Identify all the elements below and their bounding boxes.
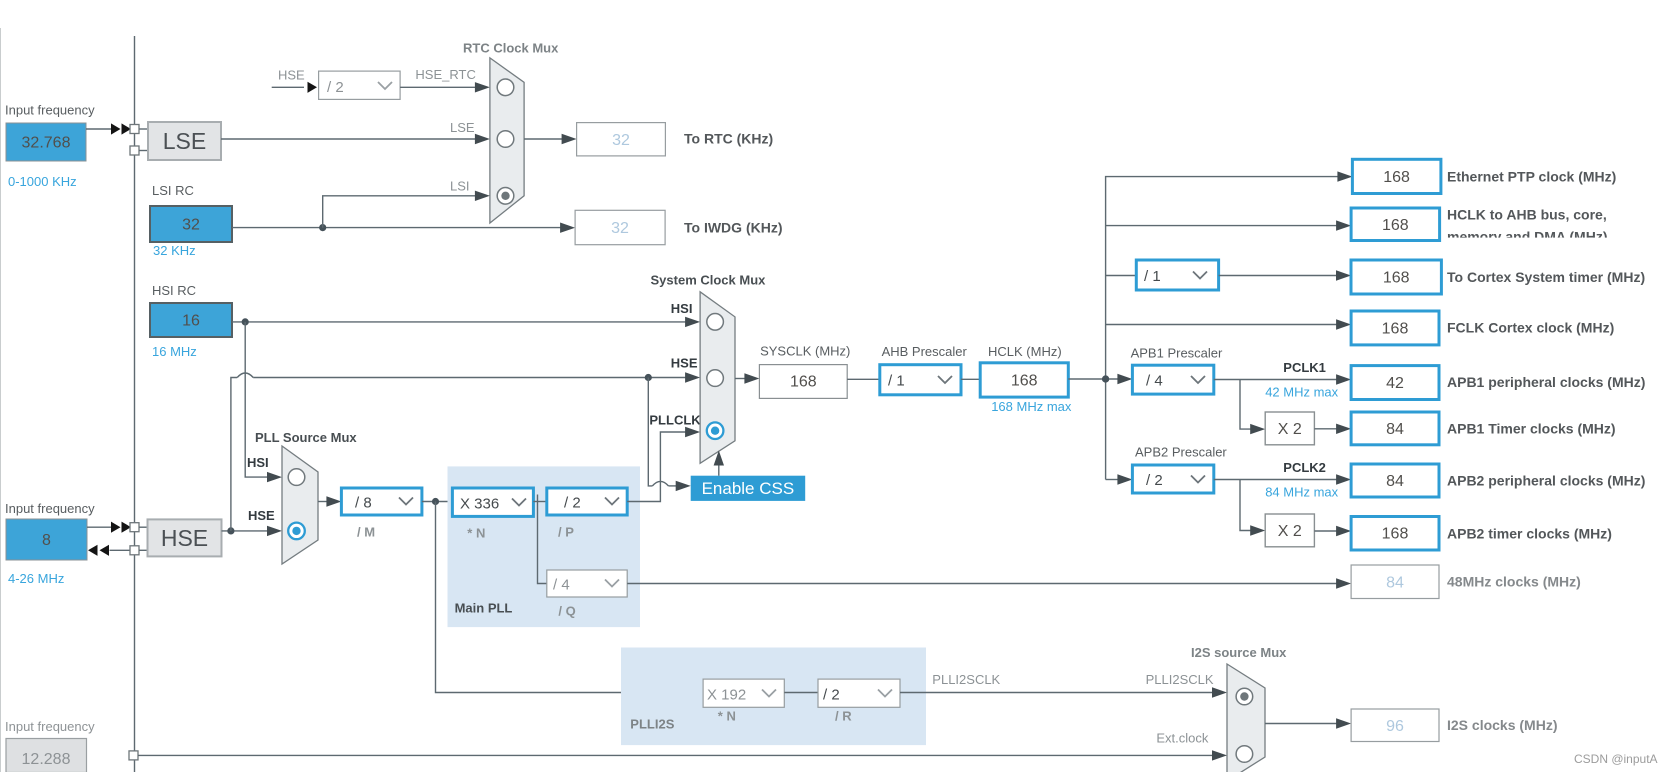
svg-text:84: 84 <box>1386 473 1404 490</box>
wire Cortex divider to box <box>1219 270 1351 280</box>
svg-text:HCLK (MHz): HCLK (MHz) <box>988 344 1062 359</box>
svg-text:16: 16 <box>182 313 200 330</box>
To Cortex timer box 168 <box>1351 260 1441 294</box>
RTC mux radio HSE_RTC <box>497 79 514 96</box>
svg-text:12.288: 12.288 <box>22 751 71 768</box>
APB2 Prescaler label <box>1135 444 1227 459</box>
svg-text:LSE: LSE <box>163 128 206 154</box>
HSE range label <box>8 571 64 586</box>
divider Q label <box>558 603 575 618</box>
svg-text:48MHz clocks (MHz): 48MHz clocks (MHz) <box>1447 574 1581 590</box>
wire PLLM down to PLLI2S <box>436 502 704 693</box>
wire X2 to APB2 timer clocks <box>1314 526 1351 536</box>
svg-text:Ext.clock: Ext.clock <box>1156 730 1209 745</box>
RTC Clock Mux body <box>490 58 524 223</box>
To IWDG label <box>684 220 783 236</box>
svg-text:HSI RC: HSI RC <box>152 283 196 298</box>
MCU boundary line <box>134 36 136 772</box>
LSI junction <box>319 224 326 231</box>
APB1 peripheral box 42 <box>1351 366 1439 400</box>
svg-text:32: 32 <box>182 217 200 234</box>
HSI net label at PLL mux <box>247 455 269 470</box>
svg-text:8: 8 <box>42 532 51 549</box>
wire PLLI2SCLK to I2S mux <box>900 687 1227 697</box>
PLLI2SCLK net label <box>932 672 1000 687</box>
wire HSI to system mux <box>232 317 700 327</box>
svg-text:APB2 peripheral clocks (MHz): APB2 peripheral clocks (MHz) <box>1447 473 1645 489</box>
APB2 prescaler dropdown /2 <box>1132 465 1213 493</box>
svg-text:/ 2: / 2 <box>327 79 344 96</box>
I2S source Mux body <box>1227 664 1265 777</box>
AHB Prescaler label <box>882 344 968 359</box>
svg-text:Input frequency: Input frequency <box>5 103 95 118</box>
LSE input frequency label <box>5 103 95 118</box>
RTC HSE divider /2 dropdown <box>319 71 401 99</box>
HCLK trunk line <box>1106 171 1353 479</box>
PLLM junction <box>432 498 439 505</box>
svg-text:* N: * N <box>467 525 485 540</box>
HSI 16 MHz label <box>152 344 197 359</box>
FCLK label <box>1447 320 1614 336</box>
APB1 peripheral label <box>1447 374 1645 390</box>
PLL mux radio HSI <box>288 469 305 486</box>
svg-text:Input frequency: Input frequency <box>5 719 95 734</box>
APB2 peripheral label <box>1447 473 1645 489</box>
HSE junction <box>227 527 234 534</box>
To Cortex timer label <box>1447 269 1645 285</box>
Cortex timer divider /1 <box>1136 260 1218 290</box>
svg-text:X 192: X 192 <box>707 687 746 704</box>
svg-text:HCLK to AHB bus, core,: HCLK to AHB bus, core, <box>1447 207 1607 223</box>
wire M to N <box>422 501 453 503</box>
wire I2S mux to I2S clocks <box>1265 718 1351 728</box>
I2S boundary pin square <box>129 751 138 760</box>
svg-text:X 336: X 336 <box>460 496 499 513</box>
svg-text:APB1 Prescaler: APB1 Prescaler <box>1131 345 1223 360</box>
svg-text:16 MHz: 16 MHz <box>152 344 197 359</box>
svg-text:PLL Source Mux: PLL Source Mux <box>255 430 357 445</box>
svg-text:PLLI2SCLK: PLLI2SCLK <box>932 672 1000 687</box>
SYSCLK label <box>760 344 850 359</box>
HSE oscillator box <box>148 519 222 556</box>
HSE_RTC net label <box>415 67 475 82</box>
divider Q dropdown /4 <box>547 570 627 597</box>
LSE range label <box>8 174 77 189</box>
APB1 trunk junction <box>1102 375 1109 382</box>
svg-text:To RTC (KHz): To RTC (KHz) <box>684 131 773 147</box>
wire PLLQ to 48MHz clocks <box>627 578 1351 588</box>
APB2 peripheral box 84 <box>1351 464 1439 497</box>
HSI RC label <box>152 283 196 298</box>
48MHz clocks box 84 <box>1351 565 1439 599</box>
svg-text:/ 8: / 8 <box>355 495 372 512</box>
Main PLL title <box>455 601 513 616</box>
svg-text:HSI: HSI <box>671 301 693 316</box>
svg-text:PCLK1: PCLK1 <box>1283 360 1326 375</box>
system mux radio PLLCLK selected <box>707 422 724 439</box>
PLL mux radio HSE selected <box>288 523 305 540</box>
HCLK AHB bus label line2 clipped <box>1445 229 1664 249</box>
svg-text:32 KHz: 32 KHz <box>153 243 196 258</box>
svg-text:168: 168 <box>790 374 817 391</box>
PLLCLK net label <box>649 413 701 428</box>
svg-text:System Clock Mux: System Clock Mux <box>651 272 767 287</box>
wire trunk to FCLK <box>1106 319 1352 329</box>
APB1 timer box 84 <box>1351 412 1439 445</box>
svg-text:4-26 MHz: 4-26 MHz <box>8 571 64 586</box>
screenshot left edge <box>0 28 2 772</box>
svg-text:HSE: HSE <box>278 68 305 83</box>
Ethernet PTP clock box 168 <box>1352 159 1441 193</box>
svg-text:32: 32 <box>612 132 630 149</box>
APB1 timer multiplier X2 <box>1265 412 1314 445</box>
svg-text:Main PLL: Main PLL <box>455 601 513 616</box>
svg-text:168: 168 <box>1383 270 1410 287</box>
wire HSE stub to RTC divider <box>272 82 317 93</box>
HSE input frequency label <box>5 501 95 516</box>
multiplier N label <box>467 525 485 540</box>
HCLK max label <box>991 399 1072 414</box>
svg-text:FCLK Cortex clock (MHz): FCLK Cortex clock (MHz) <box>1447 320 1614 336</box>
LSE input frequency box 32.768 <box>6 123 86 161</box>
wire pins to LSE box <box>139 129 148 151</box>
HSI net label at system mux <box>671 301 693 316</box>
FCLK box 168 <box>1351 311 1439 345</box>
I2S input frequency label <box>5 719 95 734</box>
APB2 timer multiplier X2 <box>1265 514 1314 547</box>
wire APB2 branch to X2 <box>1240 480 1265 536</box>
PLL Source Mux title <box>255 430 357 445</box>
HSI RC box 16 <box>150 303 232 337</box>
PLLI2S title <box>630 716 674 731</box>
svg-text:168 MHz max: 168 MHz max <box>991 399 1072 414</box>
HCLK label <box>988 344 1062 359</box>
svg-text:* N: * N <box>718 709 736 724</box>
PCLK1 max label <box>1265 384 1338 399</box>
wire AHB prescaler to HCLK <box>961 378 980 380</box>
wire N junction down to Q <box>538 495 547 584</box>
I2S source Mux title <box>1191 645 1287 660</box>
svg-text:/ 2: / 2 <box>823 687 840 704</box>
svg-text:/ 4: / 4 <box>1146 373 1163 390</box>
wire CSS branch with hop <box>648 378 690 492</box>
svg-text:168: 168 <box>1382 321 1409 338</box>
wire RTC mux to To RTC <box>524 134 577 144</box>
svg-text:/ 2: / 2 <box>1146 472 1163 489</box>
divider P dropdown /2 <box>547 488 627 515</box>
HSE stub label for RTC divider <box>278 68 305 83</box>
HSE input double arrows in <box>111 522 131 533</box>
svg-text:HSE: HSE <box>671 356 698 371</box>
svg-text:X 2: X 2 <box>1278 523 1302 540</box>
PLLI2S divider R dropdown /2 <box>818 679 900 707</box>
wire HSE input to boundary <box>87 526 111 528</box>
svg-text:168: 168 <box>1383 169 1410 186</box>
svg-text:42: 42 <box>1386 375 1404 392</box>
wire APB1 prescaler to APB1 clocks <box>1214 374 1351 384</box>
svg-text:CSDN @inputA: CSDN @inputA <box>1574 752 1658 766</box>
wire N to P <box>533 501 546 503</box>
svg-text:168: 168 <box>1011 373 1038 390</box>
System Clock Mux title <box>651 272 767 287</box>
I2S mux radio Ext.clock <box>1236 746 1253 763</box>
wire PLL mux to divider M <box>318 496 341 506</box>
To RTC label <box>684 131 773 147</box>
I2S clocks box 96 <box>1351 709 1439 742</box>
svg-text:I2S source Mux: I2S source Mux <box>1191 645 1287 660</box>
svg-text:/ P: / P <box>558 525 574 540</box>
PLLI2S panel <box>621 648 926 746</box>
wire HSE to PLL mux <box>222 526 283 536</box>
svg-text:PLLCLK: PLLCLK <box>649 413 701 428</box>
I2S mux radio PLLI2SCLK selected <box>1236 688 1253 705</box>
wire X2 to APB1 timer clocks <box>1314 424 1351 434</box>
multiplier N dropdown X336 <box>452 488 533 516</box>
svg-text:168: 168 <box>1382 217 1409 234</box>
svg-text:HSE: HSE <box>161 525 208 551</box>
wire Enable CSS up arrow <box>714 451 724 476</box>
svg-text:32.768: 32.768 <box>22 135 71 152</box>
svg-text:42 MHz max: 42 MHz max <box>1265 384 1338 399</box>
LSI 32 KHz label <box>153 243 196 258</box>
RTC mux radio LSI selected <box>497 188 514 205</box>
svg-text:/ 4: / 4 <box>553 577 570 594</box>
wire APB2 prescaler to APB2 clocks <box>1214 474 1351 484</box>
APB2 timer label <box>1447 526 1612 542</box>
HSE net label at system mux <box>671 356 698 371</box>
svg-text:/ 2: / 2 <box>564 495 581 512</box>
svg-text:Ethernet PTP clock (MHz): Ethernet PTP clock (MHz) <box>1447 169 1616 185</box>
svg-text:PCLK2: PCLK2 <box>1283 460 1326 475</box>
LSE net label <box>450 120 475 135</box>
RTC mux radio LSE <box>497 131 514 148</box>
System Clock Mux body <box>700 292 735 464</box>
PLLI2S N label <box>718 709 736 724</box>
HCLK AHB bus label line1 <box>1447 207 1607 223</box>
wire LSI up to RTC mux <box>323 191 490 228</box>
svg-text:To IWDG (KHz): To IWDG (KHz) <box>684 220 783 236</box>
PLLI2SCLK net label at mux <box>1146 672 1214 687</box>
svg-text:RTC Clock Mux: RTC Clock Mux <box>463 41 559 56</box>
Main PLL panel <box>448 466 641 627</box>
svg-text:/ Q: / Q <box>558 603 575 618</box>
LSE oscillator box <box>148 122 221 160</box>
divider M dropdown /8 <box>341 488 422 515</box>
SYSCLK box 168 <box>759 365 847 399</box>
svg-text:/ M: / M <box>357 525 375 540</box>
wire LSI to IWDG <box>232 223 575 233</box>
To IWDG box <box>575 210 665 244</box>
svg-text:HSE: HSE <box>248 508 275 523</box>
HCLK box 168 <box>980 363 1068 397</box>
svg-text:SYSCLK (MHz): SYSCLK (MHz) <box>760 344 850 359</box>
svg-text:APB2 timer clocks (MHz): APB2 timer clocks (MHz) <box>1447 526 1612 542</box>
svg-text:APB1 peripheral clocks (MHz): APB1 peripheral clocks (MHz) <box>1447 374 1645 390</box>
wire LSE to RTC mux <box>221 134 490 144</box>
svg-text:HSI: HSI <box>247 455 269 470</box>
APB1 Prescaler label <box>1131 345 1223 360</box>
svg-text:84 MHz max: 84 MHz max <box>1265 484 1338 499</box>
HSE input frequency box 8 <box>6 519 87 560</box>
svg-text:84: 84 <box>1386 575 1404 592</box>
svg-text:/ R: / R <box>835 709 852 724</box>
To RTC box <box>577 123 666 156</box>
wire I2S N to R <box>784 692 818 694</box>
system mux radio HSI <box>707 314 724 331</box>
svg-text:/ 1: / 1 <box>1144 268 1161 285</box>
svg-text:84: 84 <box>1386 421 1404 438</box>
wire HSE_RTC to RTC mux <box>400 82 490 92</box>
HCLK AHB bus box 168 <box>1351 208 1440 241</box>
LSE boundary pin squares <box>130 125 139 156</box>
svg-text:/ 1: / 1 <box>888 373 905 390</box>
AHB prescaler dropdown /1 <box>880 365 961 395</box>
wire SYSCLK to AHB prescaler <box>847 378 880 380</box>
LSI net label <box>450 179 470 194</box>
watermark <box>1574 752 1658 766</box>
svg-text:APB2 Prescaler: APB2 Prescaler <box>1135 444 1227 459</box>
wire HSE up to system mux with hop <box>231 372 700 531</box>
APB1 prescaler dropdown /4 <box>1132 365 1213 394</box>
svg-text:X 2: X 2 <box>1278 421 1302 438</box>
PCLK1 net label <box>1283 360 1326 375</box>
wire trunk to APB2 prescaler <box>1106 474 1133 484</box>
wire PLLP up to PLLCLK <box>627 427 700 502</box>
wire HSI down to PLL mux <box>245 322 282 482</box>
divider M label <box>357 525 375 540</box>
svg-text:PLLI2SCLK: PLLI2SCLK <box>1146 672 1214 687</box>
svg-text:Enable CSS: Enable CSS <box>702 479 795 498</box>
PLLI2S multiplier N dropdown X192 <box>703 679 784 707</box>
HSE-CSS junction <box>645 374 652 381</box>
PLL Source Mux body <box>282 446 318 564</box>
wire system mux to SYSCLK <box>735 373 759 383</box>
system mux radio HSE <box>707 370 724 387</box>
svg-text:APB1 Timer clocks (MHz): APB1 Timer clocks (MHz) <box>1447 421 1616 437</box>
svg-text:To Cortex System timer (MHz): To Cortex System timer (MHz) <box>1447 269 1645 285</box>
Ethernet PTP clock label <box>1447 169 1616 185</box>
HSE output double arrows out <box>88 545 130 556</box>
divider P label <box>558 525 574 540</box>
wire Ext.clock to I2S mux <box>138 750 1227 760</box>
I2S clocks label <box>1447 717 1557 733</box>
RTC Clock Mux title <box>463 41 559 56</box>
svg-text:LSE: LSE <box>450 120 475 135</box>
svg-text:HSE_RTC: HSE_RTC <box>415 67 475 82</box>
LSE input double arrows <box>111 123 131 134</box>
svg-text:32: 32 <box>611 220 629 237</box>
LSI RC label <box>152 183 194 198</box>
svg-text:AHB Prescaler: AHB Prescaler <box>882 344 968 359</box>
wire trunk to AHB bus clock <box>1106 220 1352 230</box>
Enable CSS button <box>691 476 806 501</box>
HSI junction <box>242 318 249 325</box>
wire LSE input to boundary <box>86 128 111 130</box>
wire pins to HSE box <box>139 527 148 550</box>
svg-text:0-1000 KHz: 0-1000 KHz <box>8 174 77 189</box>
PLLI2S R label <box>835 709 852 724</box>
svg-text:LSI RC: LSI RC <box>152 183 194 198</box>
Ext.clock net label <box>1156 730 1209 745</box>
svg-text:168: 168 <box>1382 526 1409 543</box>
PCLK2 net label <box>1283 460 1326 475</box>
svg-text:LSI: LSI <box>450 179 470 194</box>
LSI RC box 32 <box>150 206 232 242</box>
svg-text:Input frequency: Input frequency <box>5 501 95 516</box>
I2S input frequency box 12.288 <box>6 739 87 773</box>
HCLK trunk junction <box>1102 375 1109 382</box>
svg-text:PLLI2S: PLLI2S <box>630 716 674 731</box>
PCLK2 max label <box>1265 484 1338 499</box>
HSE boundary pin squares <box>130 523 139 555</box>
svg-text:I2S clocks (MHz): I2S clocks (MHz) <box>1447 717 1557 733</box>
wire APB1 branch to X2 <box>1240 380 1265 435</box>
wire HCLK to trunk <box>1068 374 1132 384</box>
HSE net label at PLL mux <box>248 508 275 523</box>
wire trunk to Cortex timer divider <box>1106 275 1137 277</box>
APB1 timer label <box>1447 421 1616 437</box>
APB2 timer box 168 <box>1351 517 1439 551</box>
svg-text:96: 96 <box>1386 718 1404 735</box>
48MHz clocks label <box>1447 574 1581 590</box>
